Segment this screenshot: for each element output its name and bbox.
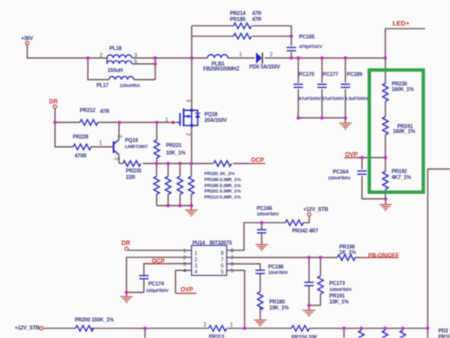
svg-text:PR185: PR185 [230,17,246,23]
svg-text:+36V: +36V [21,36,34,42]
svg-text:PR228: PR228 [73,134,89,140]
svg-text:PC164: PC164 [333,170,349,176]
svg-text:47R: 47R [252,11,262,17]
svg-text:100nF/50V: 100nF/50V [257,212,280,218]
svg-text:1: 1 [239,52,242,58]
svg-text:47uF/100V: 47uF/100V [298,96,321,102]
svg-text:PR342 4R7: PR342 4R7 [292,229,318,235]
svg-text:3.3uF/200V: 3.3uF/200V [345,96,370,102]
svg-text:PC170: PC170 [299,72,315,78]
svg-text:4K7_1%: 4K7_1% [392,175,412,181]
svg-text:DR: DR [49,100,58,106]
svg-text:160K_1%: 160K_1% [393,129,416,135]
svg-text:PL18: PL18 [110,46,122,52]
svg-text:+12V_STB: +12V_STB [303,207,328,213]
svg-text:PR214: PR214 [230,11,246,17]
svg-text:100nF/50V: 100nF/50V [329,287,352,293]
svg-text:10nF/50V: 10nF/50V [268,270,289,276]
svg-text:2: 2 [194,257,197,263]
svg-text:47uF/100V: 47uF/100V [322,96,345,102]
svg-text:2: 2 [116,135,122,138]
svg-text:6: 6 [231,262,234,268]
svg-text:3: 3 [112,157,118,160]
svg-text:8: 8 [221,251,224,257]
svg-text:PR221: PR221 [166,143,182,149]
svg-text:22R: 22R [126,175,136,181]
svg-text:PR213 0.39R_1%: PR213 0.39R_1% [204,194,241,200]
svg-text:3: 3 [183,262,186,268]
svg-text:160K_1%: 160K_1% [392,87,415,93]
svg-text:PC166: PC166 [257,206,273,212]
svg-text:PR16: PR16 [438,335,450,338]
svg-text:PQ19: PQ19 [125,138,138,144]
svg-text:2: 2 [183,255,186,261]
svg-text:PR212: PR212 [80,108,96,114]
svg-text:47R: 47R [100,109,110,115]
svg-text:PC174: PC174 [148,281,164,287]
svg-text:LED+: LED+ [393,20,410,27]
svg-text:DR: DR [122,241,131,247]
svg-text:PC189: PC189 [347,72,363,78]
svg-text:7: 7 [231,255,234,261]
svg-text:4: 4 [194,270,197,276]
svg-text:8: 8 [231,248,234,254]
svg-text:2: 2 [185,133,191,136]
svg-text:PR235: PR235 [126,169,142,175]
svg-text:4: 4 [183,269,186,275]
svg-text:10K_1%: 10K_1% [269,306,289,312]
svg-text:PR200 150K_1%: PR200 150K_1% [75,318,114,324]
svg-text:OCP: OCP [152,259,165,265]
svg-text:470R: 470R [75,154,87,160]
svg-text:PC186: PC186 [268,265,284,271]
svg-text:100pF/50V: 100pF/50V [146,288,169,294]
svg-text:120uH/5A: 120uH/5A [120,83,141,89]
svg-text:470pF/1KV: 470pF/1KV [299,44,323,50]
svg-text:FB25R/100MHZ: FB25R/100MHZ [203,67,240,73]
svg-text:PC173: PC173 [329,281,345,287]
svg-text:5: 5 [221,270,224,276]
svg-text:OVP: OVP [345,152,358,158]
svg-text:PR181 1K_1%: PR181 1K_1% [204,171,235,177]
svg-text:150uH: 150uH [108,68,123,74]
svg-text:+12V_STB: +12V_STB [15,326,40,332]
svg-text:PR180: PR180 [269,299,285,305]
svg-text:10K_1%: 10K_1% [329,299,349,305]
svg-text:2: 2 [204,322,207,328]
svg-text:3: 3 [185,99,191,102]
svg-text:1: 1 [183,248,186,254]
svg-text:1: 1 [230,322,233,328]
svg-text:PR201 0.39R_1%: PR201 0.39R_1% [204,189,241,195]
svg-text:20A/150V: 20A/150V [204,118,227,124]
svg-text:100nF/50V: 100nF/50V [328,176,351,182]
svg-text:PC165: PC165 [299,34,315,40]
svg-text:PD6 5A/150V: PD6 5A/150V [249,65,280,71]
svg-text:2: 2 [270,52,273,58]
svg-text:3: 3 [134,53,137,59]
svg-text:1: 1 [165,117,168,123]
svg-text:PL17: PL17 [97,83,109,89]
svg-text:1: 1 [99,141,102,147]
svg-text:OVP: OVP [181,288,194,294]
svg-text:PC177: PC177 [323,72,339,78]
svg-text:47R: 47R [252,17,262,23]
svg-text:5: 5 [231,269,234,275]
svg-text:PR195 0.39R_1%: PR195 0.39R_1% [204,183,241,189]
svg-text:BIT3267S: BIT3267S [210,241,233,247]
svg-text:PB-ON/OFF: PB-ON/OFF [368,253,399,259]
svg-text:7: 7 [221,257,224,263]
svg-text:10K_1%: 10K_1% [166,151,186,157]
svg-text:OCP: OCP [251,158,264,164]
svg-text:LMBT2907: LMBT2907 [125,144,148,150]
svg-text:2: 2 [100,53,103,59]
svg-text:PR189 0.39R_1%: PR189 0.39R_1% [204,177,241,183]
svg-text:5: 5 [134,59,137,65]
svg-text:1: 1 [194,251,197,257]
svg-text:PU14: PU14 [193,241,206,247]
svg-text:1K_1%: 1K_1% [339,250,356,256]
